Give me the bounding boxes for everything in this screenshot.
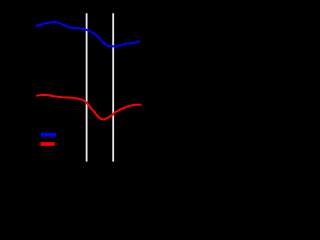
vertical marker line 2 (112, 13, 114, 161)
red curve (36, 95, 142, 120)
legend blue sample (41, 133, 56, 137)
vertical marker line 1 (86, 13, 88, 161)
blue curve (36, 22, 140, 47)
legend red sample (41, 142, 55, 146)
